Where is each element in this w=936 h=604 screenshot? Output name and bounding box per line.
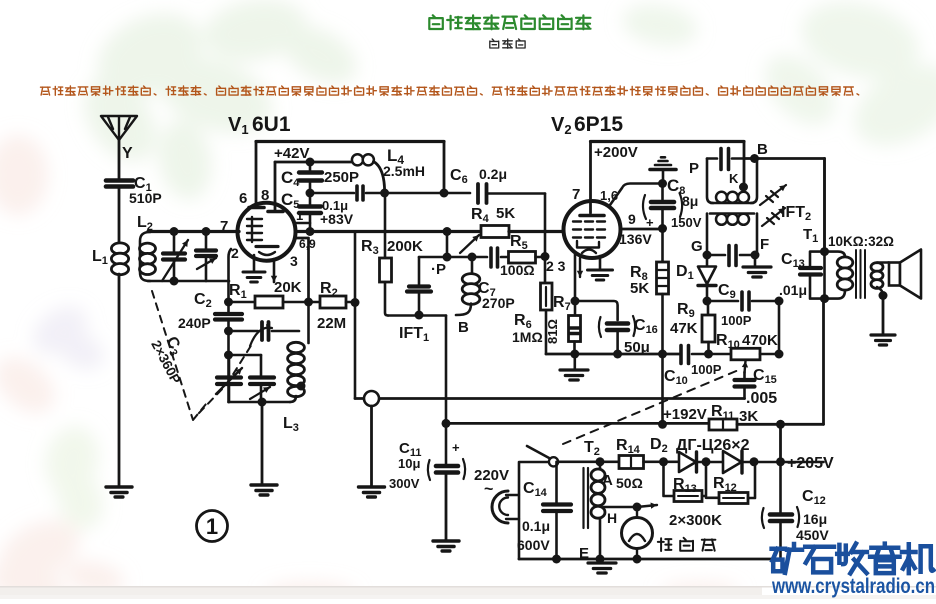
node plate(9) bbox=[658, 224, 667, 233]
resistor R4 5K (on bus) bbox=[471, 205, 563, 238]
svg-text:6P15: 6P15 bbox=[574, 113, 623, 136]
svg-text:47K: 47K bbox=[670, 320, 698, 337]
wire: B line to T1 bbox=[744, 157, 825, 160]
svg-text:270P: 270P bbox=[482, 295, 515, 311]
wire: AF rail (y354) bbox=[546, 353, 680, 356]
wire: tank bottom bbox=[148, 280, 229, 283]
svg-text:0.2μ: 0.2μ bbox=[479, 166, 507, 182]
svg-text:6: 6 bbox=[239, 190, 247, 207]
resistor R12 bbox=[706, 462, 755, 504]
svg-text:+: + bbox=[452, 440, 460, 455]
oscillator tank vertical bbox=[227, 331, 230, 402]
svg-text:200K: 200K bbox=[387, 238, 423, 255]
svg-text:F: F bbox=[760, 236, 769, 253]
svg-text:150V: 150V bbox=[671, 215, 702, 230]
transformer T2 bbox=[579, 439, 643, 562]
svg-text:7: 7 bbox=[572, 186, 580, 203]
variable capacitor C3a (tuning gang section 1) bbox=[162, 232, 188, 282]
svg-text:www.crystalradio.cn: www.crystalradio.cn bbox=[771, 575, 935, 598]
diode D1 bbox=[676, 255, 716, 301]
ground (T2/E) bbox=[588, 559, 616, 573]
V2 top rail +200V bbox=[591, 140, 745, 143]
svg-text:300V: 300V bbox=[389, 476, 420, 491]
svg-text:·P: ·P bbox=[431, 261, 446, 278]
svg-text:5K: 5K bbox=[496, 205, 515, 222]
capacitor C16 50u bbox=[575, 301, 658, 356]
wire: +192V rail to +205V node bbox=[779, 424, 782, 462]
svg-text:2: 2 bbox=[231, 245, 239, 261]
node D1 out bbox=[703, 297, 712, 306]
svg-text:.005: .005 bbox=[746, 390, 777, 407]
ground (oscillator) bbox=[251, 485, 277, 495]
node R10 right / C9 drop bbox=[775, 350, 784, 359]
wire: V2 cathode/g3 down bbox=[574, 252, 577, 301]
node R7 top bbox=[571, 297, 580, 306]
ground (jack) bbox=[359, 487, 385, 497]
wire: bottom return rail bbox=[519, 558, 781, 561]
capacitor C11 10u 300V bbox=[389, 440, 465, 540]
svg-text:5K: 5K bbox=[630, 280, 649, 297]
series capacitor C7 (on P line) bbox=[478, 248, 515, 311]
wire: osc tank bottom bbox=[229, 401, 291, 404]
grid coupling capacitor (small) bbox=[310, 186, 385, 200]
svg-text:100Ω: 100Ω bbox=[500, 262, 535, 278]
intro paragraph bbox=[41, 86, 859, 96]
svg-text:G: G bbox=[691, 238, 703, 255]
svg-text:3: 3 bbox=[290, 253, 298, 269]
diode D2a bbox=[679, 452, 723, 472]
svg-text:K: K bbox=[729, 171, 739, 186]
IFT1 resonating capacitor bbox=[407, 257, 431, 315]
node T1 top bbox=[820, 247, 829, 256]
wire: V1 grid(2) down bbox=[229, 249, 232, 302]
wire: +42V screen line bbox=[275, 161, 352, 164]
svg-text:1MΩ: 1MΩ bbox=[512, 329, 543, 345]
svg-text:B: B bbox=[757, 141, 768, 158]
wire: V1 pin 1 to C5 bbox=[294, 222, 310, 225]
svg-text:0.1μ: 0.1μ bbox=[522, 518, 550, 534]
resistor R13 bbox=[664, 462, 707, 502]
mains plug 220V bbox=[474, 467, 519, 523]
svg-text:50Ω: 50Ω bbox=[616, 475, 643, 491]
svg-text:510P: 510P bbox=[129, 190, 162, 206]
svg-text:2.5mH: 2.5mH bbox=[383, 163, 425, 179]
antenna Y bbox=[101, 116, 137, 178]
V2 cathode ground bbox=[588, 256, 613, 280]
capacitor C10 100P (series) bbox=[664, 346, 731, 388]
node P bbox=[443, 253, 452, 262]
node bus B start bbox=[442, 419, 451, 428]
wire: pins 1,6 to C8 node bbox=[610, 184, 662, 206]
wire + ground (speaker) bbox=[882, 296, 885, 335]
node R1/R2/L3 junction bbox=[304, 298, 313, 307]
wire: right riser to T1 bbox=[822, 299, 825, 425]
svg-text:A: A bbox=[602, 472, 613, 489]
svg-text:8μ: 8μ bbox=[682, 193, 698, 209]
svg-text:~: ~ bbox=[484, 481, 493, 498]
wire: detector P line bbox=[419, 256, 487, 259]
svg-text:Y: Y bbox=[122, 145, 133, 162]
resistor R11 3K (on bus B) bbox=[663, 403, 824, 430]
svg-text:8: 8 bbox=[261, 187, 269, 204]
vacuum tube V1 6U1 bbox=[220, 142, 316, 270]
svg-text:240P: 240P bbox=[178, 315, 211, 331]
svg-text:3K: 3K bbox=[739, 408, 758, 425]
wire: main grid bus V1->V2 bbox=[296, 230, 481, 233]
inductor L2 bbox=[137, 214, 156, 281]
svg-text:450V: 450V bbox=[796, 527, 829, 543]
gang dashes C3 bbox=[152, 291, 252, 420]
capacitor C2 240P bbox=[178, 291, 242, 331]
node bus/P-line link bbox=[443, 227, 452, 236]
resistor R6 1M (grid leak) bbox=[512, 257, 552, 355]
node IFT1 bottom bbox=[415, 311, 424, 320]
chassis shield symbol above C8 bbox=[650, 157, 676, 183]
inductor L3 bbox=[283, 302, 309, 434]
node L4 output bbox=[380, 189, 389, 198]
svg-text:P: P bbox=[689, 160, 699, 177]
svg-text:600V: 600V bbox=[517, 537, 550, 553]
svg-text:136V: 136V bbox=[619, 231, 652, 247]
wire: switched line to T2 bbox=[558, 460, 619, 463]
resistor R5 100ohm bbox=[500, 233, 545, 278]
indicator lamp bbox=[622, 507, 653, 564]
trimmer capacitor (antenna trim) bbox=[196, 232, 216, 282]
capacitor C4 250P bbox=[281, 162, 359, 193]
node T1 bottom bbox=[820, 294, 829, 303]
svg-text:1: 1 bbox=[296, 208, 303, 223]
node C4/C5 bbox=[306, 189, 315, 198]
inductor IFT1 primary coil bbox=[456, 257, 480, 315]
wire: bus B (+192V) bbox=[446, 422, 709, 425]
capacitor C1 510P bbox=[106, 175, 162, 243]
gang dashes to R10 bbox=[563, 369, 741, 444]
wire: V1 top rail bbox=[256, 140, 444, 143]
svg-text:+192V: +192V bbox=[663, 406, 707, 423]
capacitor C8 8u 150V (electrolytic) bbox=[643, 176, 702, 230]
svg-text:2×300K: 2×300K bbox=[669, 512, 722, 529]
wire: rail right drop bbox=[443, 142, 446, 194]
svg-text:20K: 20K bbox=[274, 279, 302, 296]
svg-text:B: B bbox=[458, 319, 469, 336]
capacitor C13 .01u bbox=[779, 251, 825, 299]
label 指示灯 bbox=[658, 538, 716, 551]
resistor R8 5K bbox=[630, 229, 669, 425]
R4 wiper arrow bbox=[460, 235, 479, 253]
capacitor C14 0.1u 600V bbox=[517, 462, 571, 564]
node B bbox=[750, 154, 759, 163]
node R5/C6/R6 bbox=[541, 252, 550, 261]
wire: C6 down to detector line bbox=[544, 194, 547, 257]
resistor R10 470K (volume) bbox=[716, 332, 779, 360]
node C9 out bbox=[775, 297, 784, 306]
svg-text:H: H bbox=[607, 510, 617, 526]
svg-text:7: 7 bbox=[220, 218, 228, 235]
osc trimmer capacitor bbox=[229, 355, 275, 402]
svg-text:2 3: 2 3 bbox=[546, 258, 566, 274]
svg-text:10μ: 10μ bbox=[398, 456, 420, 471]
wire: grid bus from L2 to V1 bbox=[148, 230, 239, 233]
svg-text:9: 9 bbox=[628, 211, 636, 227]
IFT2 primary winding bbox=[689, 149, 757, 204]
label C3 2x360P (rotated) bbox=[148, 330, 197, 386]
wire: jack ground drop bbox=[370, 406, 373, 486]
wire: B+ detector feed bbox=[385, 192, 470, 195]
ground (F) bbox=[743, 255, 771, 277]
resistor R9 47K bbox=[670, 301, 715, 354]
svg-text:16μ: 16μ bbox=[803, 511, 827, 527]
IFT2 secondary winding bbox=[691, 214, 769, 266]
V1 heater pin3 arrow bbox=[273, 259, 276, 282]
capacitor C6 0.2u bbox=[450, 166, 545, 203]
vacuum tube V2 6P15 bbox=[564, 142, 637, 259]
svg-text:22M: 22M bbox=[317, 315, 346, 332]
svg-text:81Ω: 81Ω bbox=[545, 319, 560, 344]
node speaker return bbox=[879, 291, 888, 300]
heater tap wire + arrow bbox=[604, 503, 657, 512]
wire: rail drop to K tap bbox=[743, 142, 746, 188]
svg-text:470K: 470K bbox=[742, 332, 778, 349]
wire: C11 drop bbox=[445, 423, 448, 465]
node junction bbox=[224, 298, 233, 307]
capacitor C5 0.1u bbox=[281, 190, 354, 236]
svg-text:250P: 250P bbox=[324, 169, 359, 186]
node C8 top bbox=[658, 179, 667, 188]
site logo 矿石收音机 bbox=[772, 544, 802, 573]
svg-text:100P: 100P bbox=[721, 313, 752, 328]
author 何汝泠 bbox=[490, 39, 525, 48]
ground (AF rail) bbox=[560, 354, 588, 380]
wire: B line down to T1 bbox=[823, 159, 826, 252]
ground (C11) bbox=[433, 541, 459, 551]
node T2 top bbox=[596, 457, 605, 466]
wire: V1 pins 6,9 detector output bbox=[295, 238, 309, 302]
svg-text:1: 1 bbox=[206, 514, 218, 539]
transformer T1 primary bbox=[803, 226, 894, 299]
T1 secondary + speaker bbox=[871, 250, 921, 299]
T1 core bbox=[856, 250, 865, 298]
wire: bus A (AV feedback) bbox=[355, 397, 745, 400]
wire: V2 plate to node bbox=[621, 228, 663, 231]
R10 wiper arrow + C15 bbox=[745, 361, 746, 373]
svg-text:+42V: +42V bbox=[274, 145, 309, 162]
svg-text:10KΩ:32Ω: 10KΩ:32Ω bbox=[828, 234, 894, 249]
capacitor C15 .005 bbox=[735, 367, 778, 407]
capacitor C12 16u 450V bbox=[762, 462, 829, 559]
wire: osc ground drop bbox=[261, 402, 264, 484]
switch bbox=[549, 457, 558, 466]
wire: vertical from grid bus down to bus A bbox=[354, 232, 357, 399]
ground (antenna coil) bbox=[106, 487, 132, 497]
resistor R3 200K bbox=[361, 193, 423, 316]
resistor R2 22M bbox=[317, 280, 355, 332]
phone jack terminal bbox=[364, 391, 379, 406]
svg-text:.01μ: .01μ bbox=[779, 282, 807, 298]
V1 cathode ground bbox=[243, 255, 265, 282]
node G / F bbox=[703, 251, 712, 260]
inductor L4 2.5mH loops bbox=[352, 146, 425, 192]
svg-text:+200V: +200V bbox=[594, 144, 638, 161]
wire: tank bottom to AV feedback line bbox=[388, 314, 446, 317]
svg-text:6,9: 6,9 bbox=[299, 237, 316, 251]
IFT2 trimmer arrows bbox=[760, 185, 786, 205]
capacitor C9 bbox=[707, 282, 779, 328]
resistor R1 20K bbox=[229, 279, 321, 308]
page title 来复式超外差两灯机 bbox=[429, 15, 590, 29]
resistor R14 50ohm bbox=[616, 437, 679, 469]
resistor R7 81ohm bbox=[545, 294, 581, 354]
diode D2b bbox=[723, 451, 824, 473]
node: tuning cap taps bbox=[170, 227, 179, 236]
svg-text:6U1: 6U1 bbox=[252, 113, 291, 136]
circled figure 1 bbox=[197, 511, 228, 542]
node R2 right / AV line bbox=[351, 298, 360, 307]
wire: mains loop bbox=[519, 462, 549, 559]
padder capacitor (osc top) bbox=[229, 322, 300, 346]
svg-text:+205V: +205V bbox=[787, 455, 834, 472]
svg-text:ДГ-Ц26×2: ДГ-Ц26×2 bbox=[676, 437, 750, 454]
svg-text:+83V: +83V bbox=[320, 211, 354, 227]
inductor L1 bbox=[92, 243, 129, 486]
svg-text:100P: 100P bbox=[691, 362, 722, 377]
variable capacitor C3b (osc gang) bbox=[216, 355, 242, 402]
